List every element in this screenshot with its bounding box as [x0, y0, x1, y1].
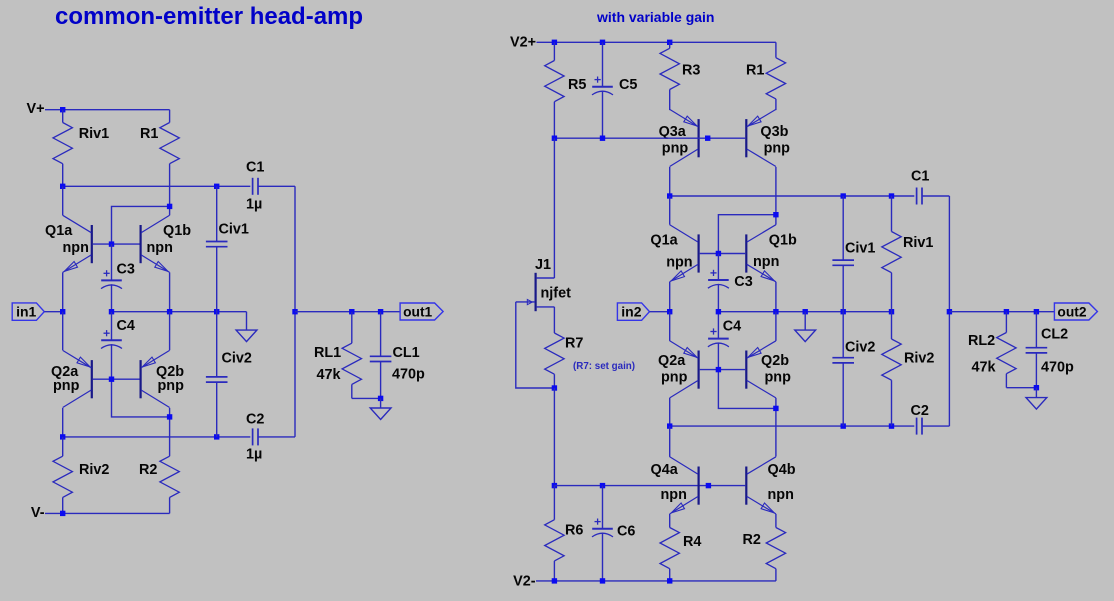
wire ground stub [246, 312, 248, 330]
svg-text:npn: npn [147, 240, 173, 256]
capacitor Civ1 [216, 186, 218, 241]
wire Q2b collector column (right) [775, 398, 777, 457]
svg-text:R2: R2 [743, 532, 761, 548]
svg-text:1µ: 1µ [246, 197, 262, 213]
wire Q1a emitter column [62, 272, 64, 311]
wire Q4a collector column [669, 426, 671, 457]
svg-text:C3: C3 [734, 274, 752, 290]
junction Riv1 top (right) [889, 193, 894, 198]
svg-text:R5: R5 [568, 77, 586, 93]
ground mid rail (right) [795, 330, 816, 342]
wire stage2 lower node rail [670, 425, 915, 427]
junction tie/Q1b collector (right) [773, 212, 778, 217]
wire V- rail [45, 512, 170, 514]
wire J1 drain column [553, 138, 555, 278]
svg-text:C2: C2 [246, 411, 264, 427]
junction Q1b/Q2b emitters [167, 309, 172, 314]
resistor Riv2 (right) [891, 312, 893, 339]
junction R7 bottom/gate [552, 385, 557, 390]
svg-text:Riv1: Riv1 [79, 126, 109, 142]
junction Civ1 top [214, 184, 219, 189]
junction RL1 top [349, 309, 354, 314]
resistor R2 (right) [775, 527, 777, 529]
transistor Q2a [91, 360, 93, 398]
svg-text:pnp: pnp [765, 370, 792, 386]
junction V2+/R5 [552, 40, 557, 45]
svg-text:R1: R1 [140, 126, 158, 142]
wire out2 row [949, 311, 1054, 313]
transistor Q1a [91, 225, 93, 263]
wire Q1a base [93, 243, 112, 245]
junction R2/Q2b collector tie [167, 414, 172, 419]
svg-text:CL1: CL1 [393, 345, 420, 361]
wire ground stub out1 [380, 398, 382, 408]
resistor R4 [669, 527, 671, 529]
ground out2 load [1026, 398, 1047, 410]
wire RL2/CL2 bottom [1006, 387, 1036, 389]
junction C3/C4 mid (right) [716, 309, 721, 314]
wire Q2b base [112, 378, 140, 380]
wire V2+ rail [537, 41, 776, 43]
wire in2 to emitter [650, 311, 670, 313]
junction RL2/CL2 bottom [1034, 385, 1039, 390]
svg-text:V2+: V2+ [510, 35, 536, 51]
svg-text:in2: in2 [621, 304, 641, 320]
svg-text:C1: C1 [911, 169, 929, 185]
svg-text:470p: 470p [392, 366, 425, 382]
wire J1 source to R7 [553, 307, 555, 333]
wire C2 to out column (right) [922, 425, 949, 427]
junction C6 top [600, 483, 605, 488]
port out2 [1054, 303, 1097, 320]
svg-text:Q2a: Q2a [658, 353, 686, 369]
svg-text:njfet: njfet [541, 285, 572, 301]
wire Q4a emitter to R4 [669, 514, 671, 528]
svg-text:R2: R2 [139, 462, 157, 478]
junction R4 bottom [667, 578, 672, 583]
wire Q1a collector (right) [669, 196, 671, 225]
wire Q1b collector column (right) [775, 215, 777, 225]
svg-text:R6: R6 [565, 522, 583, 538]
resistor R2 [169, 455, 171, 457]
wire Q1a base (right) [700, 253, 719, 255]
svg-text:out1: out1 [403, 305, 432, 320]
junction CL2 top [1034, 309, 1039, 314]
wire Q2a base (right) [700, 369, 719, 371]
capacitor C3 (right) [717, 254, 719, 281]
svg-text:Q4a: Q4a [651, 462, 679, 478]
wire V+ rail [45, 109, 170, 111]
svg-text:RL2: RL2 [968, 333, 995, 349]
resistor RL2 [1005, 312, 1007, 333]
wire Q2b emitter column [169, 312, 171, 351]
svg-text:Civ1: Civ1 [845, 240, 875, 256]
wire J1 gate feedback [516, 302, 555, 388]
svg-text:Q1b: Q1b [163, 223, 191, 239]
junction V2-/R6 [552, 578, 557, 583]
capacitor C2 (right) [916, 418, 918, 435]
capacitor CL2 [1035, 312, 1037, 348]
svg-text:1µ: 1µ [246, 446, 262, 462]
junction Riv mid (right) [889, 309, 894, 314]
wire R7 bottom to Q4 base rail [553, 388, 555, 486]
capacitor C1 [252, 178, 254, 195]
svg-text:V2-: V2- [513, 574, 536, 590]
junction C6 bottom [600, 578, 605, 583]
wire base tie lower mirror [112, 379, 170, 417]
capacitor Civ2 (right) [842, 312, 844, 358]
resistor R1 (right) [775, 42, 777, 57]
svg-text:pnp: pnp [53, 378, 80, 394]
wire Q3a collector [669, 167, 671, 196]
transistor Q2b (right) [745, 351, 747, 389]
transistor Q1a (right) [697, 234, 699, 272]
capacitor Civ2 [216, 312, 218, 377]
wire RL1/CL1 bottom [352, 397, 381, 399]
capacitor C4 (right) [717, 312, 719, 339]
wire Q2b emitter column (right) [775, 312, 777, 341]
wire stage1 lower node rail [63, 436, 251, 438]
wire mid ground rail [112, 311, 247, 313]
resistor R3 [669, 42, 671, 48]
svg-text:Riv2: Riv2 [904, 351, 934, 367]
capacitor C1 (right) [916, 188, 918, 205]
wire Q2a base [93, 378, 112, 380]
ground mid rail [236, 330, 257, 342]
resistor R7 [553, 332, 555, 334]
junction in1 node [60, 309, 65, 314]
junction Q2a collector rail (right) [667, 423, 672, 428]
svg-text:C6: C6 [617, 524, 635, 540]
capacitor C3 [111, 244, 113, 280]
wire base tie lower mirror (right) [718, 370, 776, 409]
wire Q4 base rail [554, 485, 745, 487]
junction RL2 top [1004, 309, 1009, 314]
junction Q3a collector rail [667, 193, 672, 198]
port in2 [617, 303, 649, 320]
resistor Riv1 [62, 110, 64, 123]
svg-text:Civ1: Civ1 [219, 222, 249, 238]
svg-text:Q3b: Q3b [760, 124, 788, 140]
port in1 [12, 303, 44, 320]
svg-text:Civ2: Civ2 [845, 340, 875, 356]
svg-text:47k: 47k [972, 360, 997, 376]
svg-text:Q4b: Q4b [768, 462, 796, 478]
svg-text:out2: out2 [1057, 305, 1086, 320]
wire Q1b emitter column [169, 272, 171, 311]
wire C1 right to output column [258, 185, 295, 187]
svg-text:CL2: CL2 [1041, 327, 1068, 343]
capacitor C6 [602, 486, 604, 529]
resistor R1 [169, 110, 171, 123]
junction R3 top [667, 40, 672, 45]
resistor R6 [553, 486, 555, 520]
port out1 [400, 303, 443, 320]
svg-text:pnp: pnp [662, 140, 689, 156]
svg-text:47k: 47k [317, 367, 342, 383]
junction Q3a base [705, 136, 710, 141]
resistor RL1 [351, 312, 353, 344]
junction R6 top [552, 483, 557, 488]
svg-text:pnp: pnp [661, 370, 688, 386]
ground out1 load [370, 408, 391, 420]
capacitor C2 [252, 428, 254, 445]
transistor Q3a [697, 119, 699, 157]
svg-text:Riv1: Riv1 [903, 235, 933, 251]
svg-text:R3: R3 [682, 63, 700, 79]
junction C3/C4 mid [109, 309, 114, 314]
svg-text:J1: J1 [535, 257, 551, 273]
wire Q1b emitter column (right) [775, 282, 777, 312]
junction Q1b/Q2b emitters (right) [773, 309, 778, 314]
wire Q2b collector column [169, 408, 171, 456]
transistor Q3b [745, 119, 747, 157]
svg-text:in1: in1 [16, 304, 36, 320]
junction out2 column [947, 309, 952, 314]
junction common base lower [109, 377, 114, 382]
transistor Q4a [697, 467, 699, 505]
junction Q2a collector/Riv2 [60, 434, 65, 439]
capacitor Civ1 (right) [842, 196, 844, 260]
transistor Q1b (right) [745, 234, 747, 272]
transistor Q4b [745, 467, 747, 505]
wire C2 right to output column [258, 436, 295, 438]
junction V-/Riv2 [60, 511, 65, 516]
wire Q2b base (right) [718, 369, 745, 371]
junction CL1 top [378, 309, 383, 314]
transistor Q2b [140, 360, 142, 398]
junction output node [292, 309, 297, 314]
svg-text:npn: npn [63, 240, 89, 256]
wire base-to-collector tie upper mirror [112, 206, 170, 244]
svg-text:R7: R7 [565, 336, 583, 352]
junction common base upper [109, 241, 114, 246]
junction in2 node [667, 309, 672, 314]
svg-text:C1: C1 [246, 160, 264, 176]
svg-text:Q2b: Q2b [761, 353, 789, 369]
wire ground stub out2 [1035, 388, 1037, 398]
wire Q3b collector column [775, 167, 777, 212]
wire stage2 node rail [670, 195, 915, 197]
svg-text:RL1: RL1 [314, 345, 341, 361]
wire V2- rail [536, 580, 776, 582]
wire Q2a emitter column [62, 312, 64, 351]
svg-text:C4: C4 [117, 318, 135, 334]
junction ground stub (right) [803, 309, 808, 314]
junction Civ2 bottom [214, 434, 219, 439]
svg-text:C4: C4 [723, 318, 741, 334]
svg-text:R4: R4 [683, 534, 701, 550]
svg-text:pnp: pnp [158, 378, 185, 394]
transistor Q1b [140, 225, 142, 263]
svg-text:C2: C2 [911, 403, 929, 419]
wire in1 to emitter [44, 311, 62, 313]
junction C5 top [600, 40, 605, 45]
junction R1/Q1b collector tie [167, 204, 172, 209]
svg-text:(R7: set gain): (R7: set gain) [573, 361, 635, 372]
wire ground stub (right) [804, 312, 806, 330]
wire Q1b collector column [169, 206, 171, 215]
junction Civ mid (right) [841, 309, 846, 314]
junction Riv2 bottom (right) [889, 423, 894, 428]
svg-text:npn: npn [768, 487, 794, 503]
transistor Q2a (right) [697, 351, 699, 389]
resistor Riv1 (right) [891, 196, 893, 232]
svg-text:Q1a: Q1a [45, 223, 73, 239]
capacitor C5 [602, 42, 604, 86]
junction common base upper (right) [716, 251, 721, 256]
junction Civ1 top (right) [841, 193, 846, 198]
wire Q1a emitter column (right) [669, 282, 671, 312]
svg-text:Q1a: Q1a [650, 232, 678, 248]
svg-text:R1: R1 [746, 63, 764, 79]
junction R5 bottom [552, 136, 557, 141]
junction Q4a base [706, 483, 711, 488]
svg-text:V-: V- [31, 505, 45, 521]
wire Q4b emitter to R2 [775, 514, 777, 528]
capacitor C4 [111, 312, 113, 341]
wire Q1b base [112, 243, 140, 245]
wire Q1a collector [62, 186, 64, 215]
wire Q1b base (right) [718, 253, 745, 255]
wire C1 to out column (right) [922, 195, 949, 197]
transistor J1 njfet [534, 273, 536, 311]
junction Riv1/Q1a collector [60, 184, 65, 189]
svg-text:npn: npn [666, 255, 692, 271]
junction Civ mid [214, 309, 219, 314]
junction V+/Riv1 [60, 107, 65, 112]
wire output column vertical [294, 186, 296, 437]
wire stage1 node rail [63, 185, 251, 187]
junction Civ2 bottom (right) [841, 423, 846, 428]
junction RL1/CL1 bottom [378, 396, 383, 401]
junction C5 bottom [600, 136, 605, 141]
svg-text:Civ2: Civ2 [222, 350, 252, 366]
svg-text:V+: V+ [26, 101, 44, 117]
junction tie/Q2b collector (right) [773, 406, 778, 411]
resistor R5 [553, 42, 555, 60]
svg-text:C3: C3 [117, 262, 135, 278]
svg-text:npn: npn [661, 487, 687, 503]
svg-text:Q1b: Q1b [769, 232, 797, 248]
wire output row [295, 311, 400, 313]
wire Q2a collector [62, 408, 64, 437]
resistor Riv2 [62, 437, 64, 456]
wire base tie upper mirror (right) [718, 215, 776, 254]
wire Q2a collector (right) [669, 398, 671, 426]
wire Q3 base rail [554, 137, 745, 139]
svg-text:with variable gain: with variable gain [596, 9, 714, 25]
junction common base lower (right) [716, 367, 721, 372]
svg-text:470p: 470p [1041, 360, 1074, 376]
svg-text:pnp: pnp [764, 140, 791, 156]
wire out column vertical (right) [948, 196, 950, 426]
svg-text:Riv2: Riv2 [79, 462, 109, 478]
capacitor CL1 [380, 312, 382, 357]
wire Q2a emitter column (right) [669, 312, 671, 341]
svg-text:common-emitter head-amp: common-emitter head-amp [55, 3, 363, 30]
wire mid ground rail (right) [718, 311, 891, 313]
svg-text:npn: npn [753, 254, 779, 270]
svg-text:C5: C5 [619, 77, 637, 93]
